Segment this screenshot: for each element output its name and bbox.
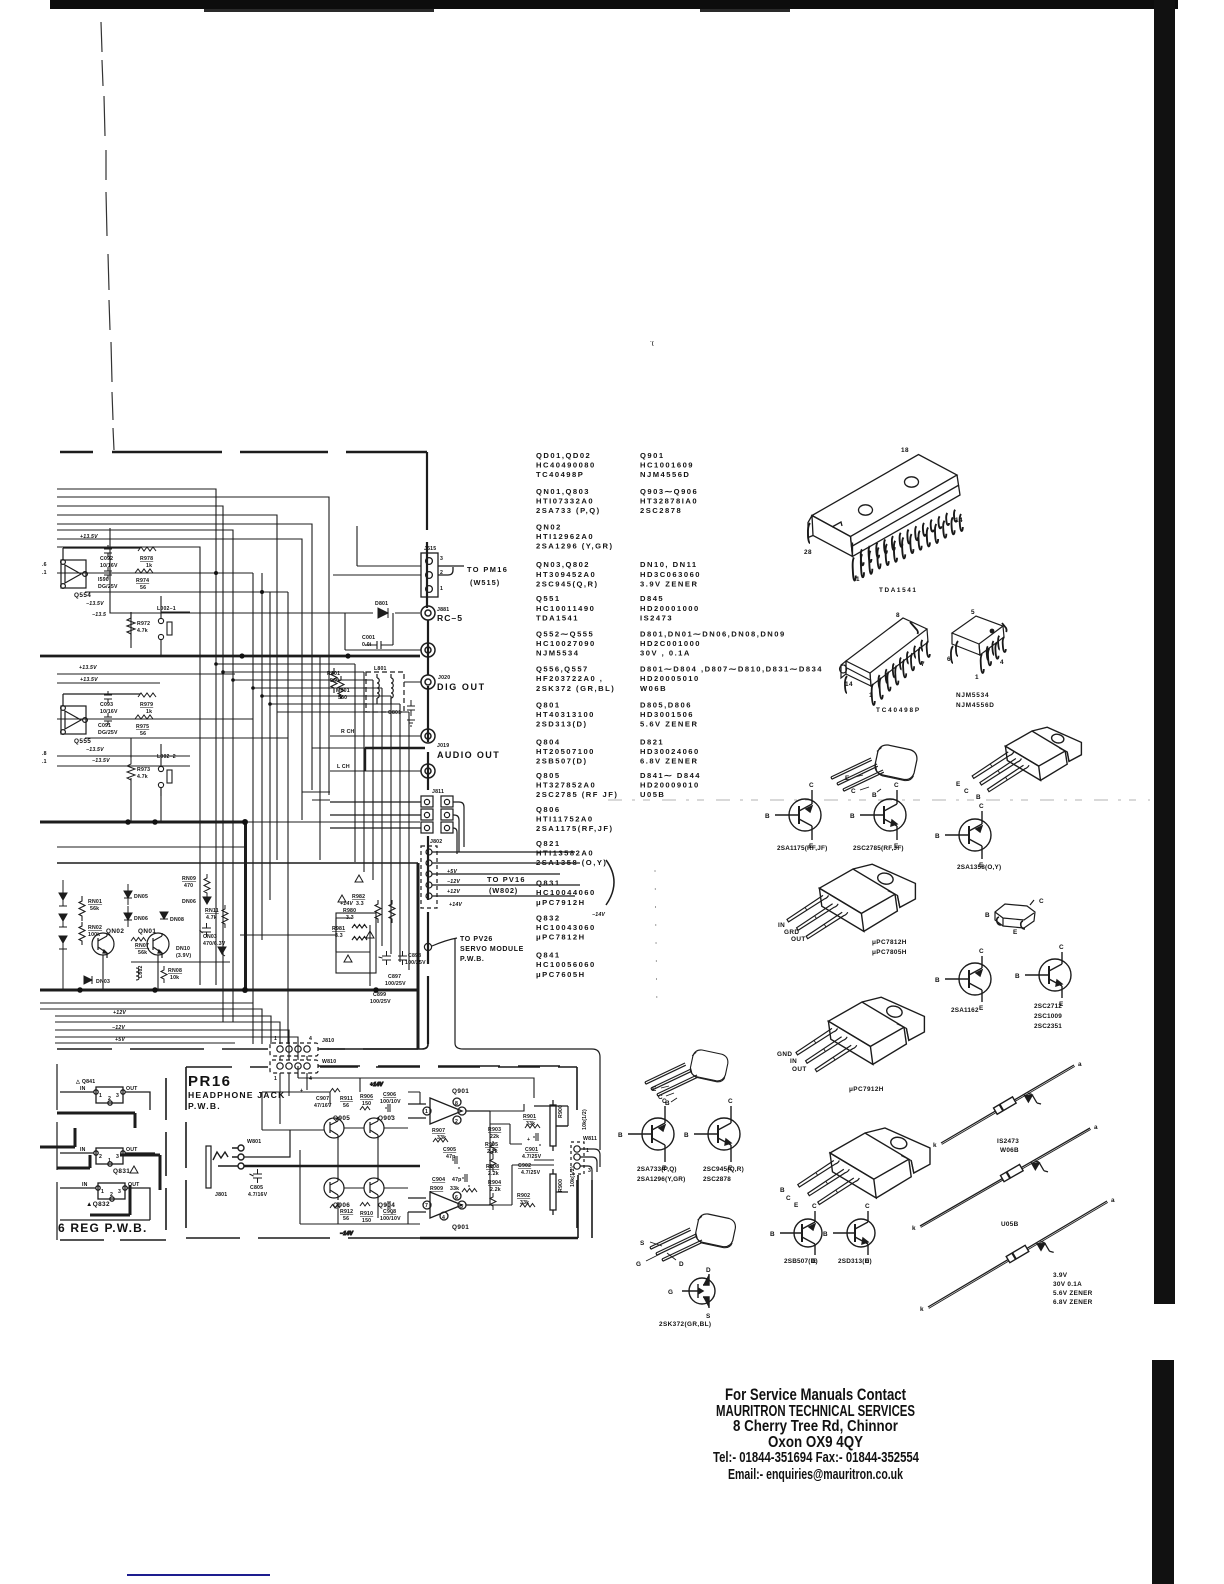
svg-text:2: 2 <box>440 570 443 576</box>
svg-text:470/: 470/ <box>203 941 214 947</box>
svg-text:Q901: Q901 <box>452 1088 469 1095</box>
transistor QN01 <box>147 933 169 958</box>
connector J515 <box>333 526 464 597</box>
svg-text:GRD: GRD <box>784 929 799 936</box>
svg-text:IN: IN <box>790 1058 797 1065</box>
svg-text:IN: IN <box>80 1086 86 1092</box>
capacitor CN03 <box>200 923 212 937</box>
svg-text:k: k <box>920 1306 924 1313</box>
svg-text:U05B: U05B <box>640 790 665 799</box>
svg-text:C908: C908 <box>383 1209 396 1215</box>
jack J881 RC-5 <box>421 606 435 620</box>
svg-text:2SA733 (P,Q): 2SA733 (P,Q) <box>536 506 601 515</box>
svg-text:−14V: −14V <box>340 1231 353 1237</box>
svg-text:AUDIO OUT: AUDIO OUT <box>437 750 500 760</box>
svg-text:C: C <box>786 1195 791 1202</box>
board outline PR16 <box>186 1067 577 1238</box>
svg-text:+5V: +5V <box>115 1037 125 1043</box>
resistor M001 560 vertical pair <box>331 668 344 699</box>
svg-text:HT32878IA0: HT32878IA0 <box>640 496 698 505</box>
svg-text:6.8V ZENER: 6.8V ZENER <box>640 757 698 766</box>
svg-text:W811: W811 <box>583 1136 597 1142</box>
svg-text:QN02: QN02 <box>106 928 124 935</box>
svg-text:2SA1175(RF,JF): 2SA1175(RF,JF) <box>536 824 614 833</box>
svg-text:2SD313(D): 2SD313(D) <box>536 719 587 728</box>
svg-text:6 REG P.W.B.: 6 REG P.W.B. <box>58 1221 148 1235</box>
svg-text:R974: R974 <box>136 578 149 584</box>
svg-text:D801⁓D804 ,D807⁓D810,D831⁓D834: D801⁓D804 ,D807⁓D810,D831⁓D834 <box>640 665 823 674</box>
svg-text:C: C <box>809 782 814 789</box>
svg-text:Q821: Q821 <box>536 839 561 848</box>
svg-text:OUT: OUT <box>792 1066 807 1073</box>
svg-text:4.7k: 4.7k <box>137 628 148 634</box>
svg-text:100/10V: 100/10V <box>380 1216 401 1222</box>
svg-text:C: C <box>894 782 899 789</box>
jack R ch <box>421 729 435 743</box>
wires inside PR16 <box>262 1066 554 1237</box>
package mini mold BCE <box>995 900 1035 929</box>
svg-text:33k: 33k <box>450 1186 459 1192</box>
svg-text:Q901: Q901 <box>452 1224 469 1231</box>
diode DN06b <box>203 897 211 904</box>
svg-text:C897: C897 <box>388 974 401 980</box>
svg-text:+13.5V: +13.5V <box>80 534 98 540</box>
left power rail wires lower <box>40 1003 253 1044</box>
svg-text:Q556,Q557: Q556,Q557 <box>536 665 589 674</box>
svg-text:RN11: RN11 <box>205 908 219 914</box>
junction dots on permutation <box>214 662 272 706</box>
svg-text:3.3: 3.3 <box>356 901 364 907</box>
svg-text:D801,DN01⁓DN06,DN08,DN09: D801,DN01⁓DN06,DN08,DN09 <box>640 630 786 639</box>
transistor symbol ['2SA1175(RF,JF)'] <box>775 790 821 840</box>
svg-text:OUT: OUT <box>126 1086 138 1092</box>
svg-text:2: 2 <box>99 1154 102 1160</box>
svg-text:+: + <box>527 1137 530 1143</box>
svg-text:6: 6 <box>455 1195 458 1201</box>
svg-text:▲Q832: ▲Q832 <box>86 1201 110 1208</box>
svg-text:D: D <box>706 1267 711 1274</box>
jack J020 DIG OUT <box>421 675 435 689</box>
transistor symbol ['2SA1358(O,Y)'] <box>945 811 991 859</box>
svg-text:μPC7912H: μPC7912H <box>849 1086 884 1093</box>
svg-text:E: E <box>979 1005 984 1012</box>
svg-text:DN10: DN10 <box>176 946 190 952</box>
svg-text:HD3C063060: HD3C063060 <box>640 570 701 579</box>
potentiometer R900 lower <box>550 1169 568 1215</box>
svg-text:RN09: RN09 <box>182 876 196 882</box>
svg-text:IS2473: IS2473 <box>997 1138 1019 1145</box>
svg-text:Q831: Q831 <box>536 879 561 888</box>
svg-text:.8: .8 <box>42 751 47 757</box>
svg-text:DG/25V: DG/25V <box>98 584 118 590</box>
svg-text:2SC2878: 2SC2878 <box>703 1176 731 1183</box>
svg-text:C: C <box>662 1098 667 1105</box>
svg-text:E: E <box>956 781 961 788</box>
svg-text:+14V: +14V <box>449 902 462 908</box>
svg-text:a: a <box>1094 1124 1098 1131</box>
svg-text:10k: 10k <box>170 975 179 981</box>
svg-text:C: C <box>979 803 984 810</box>
transistor symbol ['2SA733(P,Q)', '2SA1296(Y,GR)'] <box>628 1106 674 1162</box>
svg-text:Q805: Q805 <box>536 771 561 780</box>
svg-text:D801: D801 <box>375 601 388 607</box>
svg-text:2SB507(D): 2SB507(D) <box>536 757 587 766</box>
diode DN06 <box>124 913 132 920</box>
svg-text:NJM4556D: NJM4556D <box>640 470 690 479</box>
svg-text:C: C <box>979 948 984 955</box>
svg-text:QD01,QD02: QD01,QD02 <box>536 451 591 460</box>
svg-text:QN01: QN01 <box>138 928 156 935</box>
svg-text:8: 8 <box>455 1101 458 1107</box>
svg-text:56k: 56k <box>138 950 147 956</box>
svg-text:14: 14 <box>955 517 963 524</box>
svg-text:1: 1 <box>586 1148 589 1154</box>
resistor R974 <box>135 569 153 573</box>
svg-text:J020: J020 <box>438 675 450 681</box>
svg-text:QN01,Q803: QN01,Q803 <box>536 487 590 496</box>
svg-text:+13.5V: +13.5V <box>79 665 97 671</box>
svg-text:B: B <box>780 1187 785 1194</box>
svg-text:(W515): (W515) <box>470 578 500 587</box>
ground <box>407 720 415 726</box>
svg-text:−12V: −12V <box>447 879 460 885</box>
headphone jack J801 <box>206 1130 420 1188</box>
svg-text:3.3: 3.3 <box>335 933 343 939</box>
svg-text:150: 150 <box>362 1218 371 1224</box>
svg-text:Q903⁓Q906: Q903⁓Q906 <box>640 487 698 496</box>
capacitor C801 <box>407 700 415 716</box>
svg-text:HTI07332A0: HTI07332A0 <box>536 496 594 505</box>
svg-text:6.3V: 6.3V <box>214 941 226 947</box>
svg-text:C907: C907 <box>316 1096 329 1102</box>
svg-text:IN: IN <box>82 1182 88 1188</box>
svg-text:C093: C093 <box>100 702 113 708</box>
bus wires fanning from left <box>57 489 216 985</box>
svg-text:Q831: Q831 <box>113 1168 130 1175</box>
svg-text:U05B: U05B <box>1001 1221 1019 1228</box>
svg-text:Q832: Q832 <box>536 914 561 923</box>
svg-text:C899: C899 <box>373 992 386 998</box>
svg-text:μPC7812H: μPC7812H <box>536 933 586 942</box>
svg-text:4: 4 <box>309 1036 312 1042</box>
svg-text:.1: .1 <box>42 570 47 576</box>
svg-text:28: 28 <box>804 549 812 556</box>
capacitor I590 <box>104 567 112 579</box>
svg-text:C801: C801 <box>388 710 401 716</box>
svg-text:56: 56 <box>343 1103 349 1109</box>
svg-text:1: 1 <box>975 674 979 681</box>
transistor symbol ['2SD313(D)'] <box>833 1211 875 1255</box>
svg-text:1: 1 <box>101 1189 104 1195</box>
svg-text:TO PM16: TO PM16 <box>467 565 508 574</box>
svg-text:8 Cherry Tree Rd, Chinnor: 8 Cherry Tree Rd, Chinnor <box>733 1418 898 1435</box>
svg-text:PR16: PR16 <box>188 1073 232 1090</box>
board outline: bottom dashed border <box>57 1044 428 1049</box>
opamp U Q901a <box>408 1098 490 1124</box>
svg-text:L801: L801 <box>374 666 387 672</box>
regulator U Q841 <box>60 1087 150 1110</box>
resistor RN01 <box>79 896 85 921</box>
svg-text:C: C <box>851 788 856 795</box>
svg-text:C001: C001 <box>362 635 375 641</box>
photocopy mark: blue line bottom-left <box>127 1574 270 1576</box>
package TO-92 <box>650 1212 737 1261</box>
svg-text:R905: R905 <box>485 1142 498 1148</box>
svg-text:10/16V: 10/16V <box>100 709 118 715</box>
svg-text:3: 3 <box>116 1154 119 1160</box>
svg-text:D845: D845 <box>640 594 664 603</box>
transistor Q904 <box>364 1177 384 1200</box>
svg-text:R979: R979 <box>140 702 153 708</box>
svg-text:HC10027090: HC10027090 <box>536 639 596 648</box>
op-amp U Q555 <box>61 694 140 734</box>
svg-text:4.7/25V: 4.7/25V <box>522 1154 542 1160</box>
FET symbol 2SK372 <box>682 1274 715 1308</box>
svg-text:4: 4 <box>442 1215 445 1221</box>
svg-text:R978: R978 <box>140 556 153 562</box>
svg-text:μPC7812H: μPC7812H <box>872 939 907 946</box>
svg-text:+5V: +5V <box>447 869 457 875</box>
svg-text:TDA1541: TDA1541 <box>536 613 579 622</box>
package TO-220 [] <box>830 1128 930 1198</box>
wire verticals right mesh <box>354 664 356 862</box>
svg-text:IN: IN <box>80 1147 86 1153</box>
svg-text:R902: R902 <box>517 1193 530 1199</box>
svg-text:47p: 47p <box>446 1154 456 1160</box>
package TO-220 ['μPC7912H'] <box>828 997 924 1064</box>
svg-text:3.9V ZENER: 3.9V ZENER <box>640 579 698 588</box>
svg-text:R900: R900 <box>558 1105 564 1118</box>
svg-text:R911: R911 <box>340 1096 353 1102</box>
svg-text:22k: 22k <box>490 1134 499 1140</box>
svg-text:Q551: Q551 <box>536 594 561 603</box>
parts list column 2 <box>640 451 823 799</box>
svg-text:R906: R906 <box>360 1094 373 1100</box>
capacitor C093 <box>104 691 112 703</box>
board outline: right dash-dot vertical <box>427 452 428 1044</box>
svg-text:J811: J811 <box>432 789 444 795</box>
transistor symbol ['2SC2785(RF,JF)'] <box>860 790 906 840</box>
svg-text:RN07: RN07 <box>135 943 149 949</box>
svg-text:RN08: RN08 <box>168 968 182 974</box>
svg-text:2SC2785 (RF JF): 2SC2785 (RF JF) <box>536 790 618 799</box>
transistor Q905 <box>324 1117 344 1140</box>
svg-text:3: 3 <box>118 1189 121 1195</box>
svg-text:TC40498P: TC40498P <box>876 707 921 714</box>
svg-text:1k: 1k <box>146 709 152 715</box>
svg-text:W06B: W06B <box>640 684 667 693</box>
svg-text:C: C <box>964 788 969 795</box>
svg-text:C902: C902 <box>518 1163 531 1169</box>
resistor R975 <box>135 715 153 719</box>
svg-text:HTI12962A0: HTI12962A0 <box>536 532 594 541</box>
svg-text:2SK372 (GR,BL): 2SK372 (GR,BL) <box>536 684 615 693</box>
svg-text:1: 1 <box>99 1093 102 1099</box>
svg-text:G: G <box>636 1261 641 1268</box>
svg-text:2SA1296 (Y,GR): 2SA1296 (Y,GR) <box>536 542 614 551</box>
svg-text:S: S <box>706 1313 711 1320</box>
svg-text:C905: C905 <box>443 1147 456 1153</box>
svg-text:HC1001609: HC1001609 <box>640 460 694 469</box>
svg-text:J019: J019 <box>437 743 449 749</box>
svg-text:TO PV16: TO PV16 <box>487 875 526 884</box>
transistor symbol ['2SC2712', '2SC1009', '2SC2351'] <box>1025 952 1071 998</box>
svg-text:(W802): (W802) <box>489 886 518 895</box>
svg-text:IS2473: IS2473 <box>640 613 673 622</box>
svg-text:DN10, DN11: DN10, DN11 <box>640 560 698 569</box>
diode DN03 <box>84 976 92 984</box>
svg-text:100/10V: 100/10V <box>380 1099 401 1105</box>
svg-text:HTI13582A0: HTI13582A0 <box>536 849 594 858</box>
svg-text:`(: `( <box>650 341 654 347</box>
svg-text:1: 1 <box>274 1076 277 1082</box>
svg-text:2SA1358(O,Y): 2SA1358(O,Y) <box>957 864 1001 871</box>
opamp U Q901b <box>408 1192 490 1220</box>
svg-text:150: 150 <box>362 1101 371 1107</box>
svg-text:1: 1 <box>425 1109 428 1115</box>
svg-text:30V , 0.1A: 30V , 0.1A <box>640 649 691 658</box>
svg-text:4: 4 <box>1000 659 1004 666</box>
capacitor C805 <box>250 1169 263 1183</box>
svg-text:56: 56 <box>140 731 146 737</box>
capacitor C091 <box>104 713 112 725</box>
svg-text:k: k <box>933 1142 937 1149</box>
svg-text:G: G <box>668 1289 673 1296</box>
svg-text:OUT: OUT <box>128 1182 140 1188</box>
svg-text:3.9V: 3.9V <box>1053 1272 1068 1279</box>
svg-text:R907: R907 <box>432 1128 445 1134</box>
svg-text:TC40498P: TC40498P <box>536 470 584 479</box>
svg-text:W810: W810 <box>322 1059 336 1065</box>
inductor L002-2 <box>158 760 172 796</box>
svg-text:5: 5 <box>971 609 975 616</box>
svg-text:B: B <box>872 792 877 799</box>
svg-text:μPC7805H: μPC7805H <box>872 949 907 956</box>
svg-text:CN03: CN03 <box>203 934 217 940</box>
svg-text:DN05: DN05 <box>134 894 148 900</box>
transistor symbol ['2SA1162'] <box>945 956 991 1002</box>
scan border: top black bar <box>50 0 1178 9</box>
svg-text:R972: R972 <box>137 621 150 627</box>
svg-text:B: B <box>985 912 990 919</box>
resistor R973 <box>127 758 135 786</box>
scan fold: dashed vertical line top-left <box>101 22 114 450</box>
svg-text:−14V: −14V <box>592 912 605 918</box>
svg-text:−13.5V: −13.5V <box>86 601 104 607</box>
svg-text:GND: GND <box>777 1051 792 1058</box>
svg-text:HT309452A0: HT309452A0 <box>536 570 596 579</box>
svg-text:4.7/25V: 4.7/25V <box>521 1170 541 1176</box>
svg-text:k: k <box>912 1225 916 1232</box>
svg-text:HD20005010: HD20005010 <box>640 674 700 683</box>
svg-text:C092: C092 <box>100 556 113 562</box>
svg-text:P.W.B.: P.W.B. <box>460 956 484 963</box>
svg-text:For Service Manuals Contact: For Service Manuals Contact <box>725 1386 906 1404</box>
svg-text:DN06: DN06 <box>134 916 148 922</box>
regulator U Q832 <box>60 1183 150 1220</box>
svg-text:B: B <box>935 977 940 984</box>
svg-text:C904: C904 <box>432 1177 445 1183</box>
svg-text:7: 7 <box>425 1203 428 1209</box>
svg-text:4: 4 <box>309 1076 312 1082</box>
svg-text:B: B <box>684 1132 689 1139</box>
svg-text:−13.5: −13.5 <box>92 612 106 618</box>
svg-text:4.7k: 4.7k <box>137 774 148 780</box>
svg-text:L CH: L CH <box>337 764 350 770</box>
service contact block <box>713 1386 919 1483</box>
svg-text:HC40490080: HC40490080 <box>536 460 596 469</box>
svg-text:Email:- enquiries@mauritron.co: Email:- enquiries@mauritron.co.uk <box>728 1466 903 1483</box>
svg-text:SERVO MODULE: SERVO MODULE <box>460 946 524 953</box>
svg-text:NJM4556D: NJM4556D <box>956 702 995 709</box>
transistor Q903 <box>364 1117 384 1140</box>
svg-text:Q901: Q901 <box>640 451 665 460</box>
svg-text:W801: W801 <box>247 1139 261 1145</box>
svg-text:C906: C906 <box>383 1092 396 1098</box>
svg-text:HD2C001000: HD2C001000 <box>640 639 701 648</box>
svg-text:2SA1162: 2SA1162 <box>951 1007 979 1014</box>
L CH wire <box>330 770 421 772</box>
servo wire <box>424 938 600 1150</box>
package TO-92 <box>831 743 919 791</box>
svg-text:QN02: QN02 <box>536 523 562 532</box>
svg-text:2: 2 <box>110 1192 113 1198</box>
svg-text:Q905: Q905 <box>333 1115 350 1122</box>
svg-text:HD20001000: HD20001000 <box>640 604 700 613</box>
svg-text:Q554: Q554 <box>74 592 91 599</box>
scan fold: faint dotted line mid-right <box>608 799 1150 801</box>
diode DN05 <box>124 891 132 898</box>
svg-text:C091: C091 <box>98 723 111 729</box>
svg-text:1: 1 <box>440 586 443 592</box>
capacitor C092 <box>104 545 112 557</box>
svg-text:a: a <box>1078 1061 1082 1068</box>
svg-text:OUT: OUT <box>126 1147 138 1153</box>
svg-text:5.6V ZENER: 5.6V ZENER <box>1053 1290 1093 1297</box>
svg-text:C898: C898 <box>408 953 421 959</box>
svg-text:14: 14 <box>845 681 853 688</box>
svg-text:−12V: −12V <box>112 1025 125 1031</box>
svg-text:W06B: W06B <box>1000 1147 1019 1154</box>
svg-text:B: B <box>850 813 855 820</box>
svg-text:TDA1541: TDA1541 <box>879 587 918 594</box>
board outline: top dashed bus <box>60 451 427 454</box>
R CH wire <box>330 735 421 737</box>
svg-text:HD20009010: HD20009010 <box>640 780 700 789</box>
svg-text:E: E <box>1013 929 1018 936</box>
svg-text:R980: R980 <box>343 908 356 914</box>
svg-text:2SC2878: 2SC2878 <box>640 506 682 515</box>
svg-text:2SB507(D): 2SB507(D) <box>784 1258 818 1265</box>
heavy bus horizontals <box>40 655 420 658</box>
svg-text:△ Q841: △ Q841 <box>75 1079 95 1085</box>
svg-text:+12V: +12V <box>113 1010 126 1016</box>
svg-text:R982: R982 <box>352 894 365 900</box>
svg-text:3.3: 3.3 <box>346 915 354 921</box>
svg-text:Q555: Q555 <box>74 738 91 745</box>
svg-text:10k(1/2): 10k(1/2) <box>582 1109 588 1130</box>
svg-text:3: 3 <box>588 1168 591 1174</box>
bus permutation horizontals <box>103 664 409 990</box>
svg-text:Tel:- 01844-351694 Fax:- 01844: Tel:- 01844-351694 Fax:- 01844-352554 <box>713 1449 919 1466</box>
inductor L802 <box>136 968 139 980</box>
svg-text:B: B <box>976 794 981 801</box>
transistor symbol ['2SC945(Q,R)', '2SC2878'] <box>694 1106 740 1162</box>
svg-text:J802: J802 <box>430 839 442 845</box>
svg-text:C: C <box>1059 944 1064 951</box>
svg-text:2SC2351: 2SC2351 <box>1034 1023 1062 1030</box>
svg-text:R973: R973 <box>137 767 150 773</box>
